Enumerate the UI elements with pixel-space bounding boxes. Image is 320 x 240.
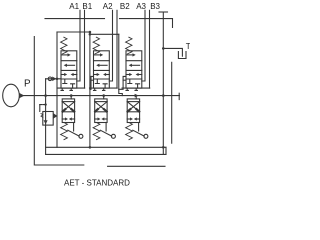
svg-text:P: P [24,78,31,89]
svg-text:T: T [186,42,190,51]
svg-text:B1: B1 [82,2,92,11]
svg-text:A1: A1 [69,2,79,11]
svg-text:B2: B2 [120,2,130,11]
svg-text:A3: A3 [136,2,146,11]
svg-text:A2: A2 [103,2,113,11]
svg-text:B3: B3 [150,2,160,11]
svg-text:AET - STANDARD: AET - STANDARD [64,179,130,188]
